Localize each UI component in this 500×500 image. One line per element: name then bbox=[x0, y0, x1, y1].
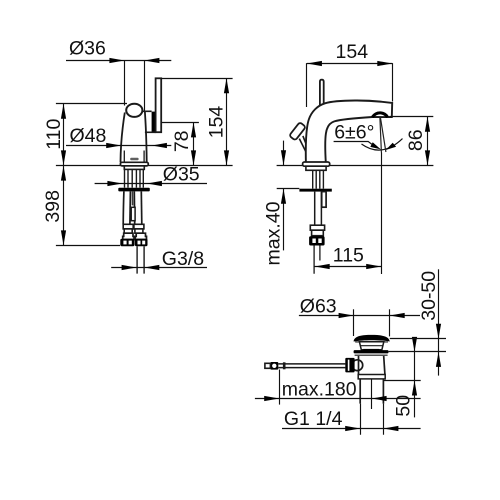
hose left crimp step B bbox=[124, 229, 132, 233]
svg-text:115: 115 bbox=[333, 245, 364, 267]
dim line Ø35 bbox=[95, 183, 207, 185]
rod collar bbox=[283, 362, 286, 369]
KEUCO logo tiny bbox=[130, 158, 138, 161]
arrow max.180 right bbox=[372, 396, 387, 401]
lever connector (black) bbox=[152, 112, 156, 132]
svg-text:398: 398 bbox=[42, 190, 64, 223]
crimp step B (right view) bbox=[312, 230, 324, 236]
dim line Ø63 bbox=[299, 315, 420, 317]
arrow Ø35 left bbox=[107, 181, 122, 186]
pop-up rod lines bbox=[132, 191, 134, 205]
arrow 154R left bbox=[307, 61, 322, 66]
svg-text:50: 50 bbox=[392, 395, 414, 417]
arrow G1 1/4 left bbox=[345, 426, 360, 431]
svg-text:6±6°: 6±6° bbox=[334, 122, 374, 144]
drain body left wall bbox=[358, 356, 360, 374]
right hose nut (black) bbox=[135, 239, 148, 246]
G3/8 pipe lines bbox=[137, 246, 144, 273]
arrow 86 down bbox=[425, 150, 430, 165]
spout body outline bbox=[306, 100, 392, 162]
arrow 398 down bbox=[61, 230, 66, 245]
arrow 115 left bbox=[315, 264, 330, 269]
counter line (right view) bbox=[277, 165, 434, 167]
crimp step A (right view) bbox=[310, 225, 324, 230]
rod tip bbox=[265, 363, 271, 368]
ball nut slit bbox=[348, 360, 350, 371]
arrow 154 down bbox=[224, 150, 229, 165]
escutcheon (left view) bbox=[120, 162, 148, 166]
stream line tilted bbox=[380, 117, 386, 152]
drain flange (black) bbox=[354, 350, 389, 353]
arrow Ø35 right bbox=[147, 181, 162, 186]
right nut window 1 bbox=[138, 241, 141, 245]
ext line 86 top bbox=[390, 116, 434, 118]
hose right crimp step B bbox=[135, 229, 143, 233]
right nut window 2 bbox=[142, 241, 145, 245]
pop-up rod housing bbox=[322, 192, 326, 208]
ext line 154 top (lever top) bbox=[161, 78, 232, 80]
dim line 86 bbox=[427, 117, 429, 166]
plug neck inner line bbox=[360, 345, 383, 347]
ext line 398 bottom bbox=[56, 245, 120, 247]
left nut collar bbox=[123, 233, 134, 239]
arrow 78 up bbox=[191, 122, 196, 137]
seal band (black) bbox=[363, 349, 379, 352]
svg-text:Ø63: Ø63 bbox=[300, 296, 337, 318]
arrow 50 up bbox=[412, 381, 417, 396]
mounting flange (right view, black) bbox=[299, 189, 331, 192]
ext line Ø63 left bbox=[353, 309, 355, 336]
plug cap (black lens) bbox=[354, 335, 390, 342]
extension line left x=124.4 bbox=[124, 61, 126, 106]
plug cap underline bbox=[355, 341, 388, 343]
ref line flange top bbox=[389, 351, 446, 353]
svg-text:G1 1/4: G1 1/4 bbox=[284, 408, 343, 430]
angle arc bbox=[362, 139, 403, 151]
lever mount bottom step bbox=[145, 131, 156, 133]
rod knob hole bbox=[272, 364, 276, 368]
hose left inner bbox=[129, 191, 132, 224]
svg-text:78: 78 bbox=[171, 130, 193, 152]
hose left crimp step A bbox=[123, 224, 133, 229]
dim line max.40 upper bbox=[283, 141, 285, 166]
ext line 78 top bbox=[161, 122, 199, 124]
dim line Ø36 bbox=[66, 60, 171, 62]
tailpipe walls bbox=[360, 379, 383, 404]
dim line Ø48 bbox=[66, 145, 171, 147]
lever pin bbox=[142, 110, 151, 112]
lever rod (right view) bbox=[320, 80, 324, 108]
side lever cap bbox=[289, 122, 306, 140]
svg-text:max.180: max.180 bbox=[282, 379, 357, 401]
cartridge knob ellipse bbox=[126, 104, 142, 117]
body outer right edge bbox=[145, 112, 147, 162]
dim line 110/398 vertical bbox=[63, 104, 65, 246]
ball nut (black) bbox=[345, 358, 354, 373]
arrow 110 down bbox=[61, 150, 66, 165]
dim line max.180 bbox=[255, 398, 421, 400]
pipe below nut + 115 ext bbox=[314, 246, 320, 274]
arrow 50 down bbox=[412, 337, 417, 352]
arrow Ø48 right bbox=[152, 143, 167, 148]
dim line 50 bbox=[414, 339, 416, 418]
tailpipe ext lines bbox=[361, 404, 384, 435]
arrow max.180 left bbox=[264, 396, 279, 401]
counter line (left view) bbox=[56, 165, 233, 167]
side lever stem bbox=[299, 136, 308, 152]
svg-text:30-50: 30-50 bbox=[418, 271, 440, 321]
dim line 78 bbox=[193, 122, 195, 165]
shank lines (right view) bbox=[313, 170, 324, 188]
lever bar bbox=[156, 78, 162, 132]
arrow 154 up bbox=[224, 78, 229, 93]
pop-up rod plate bbox=[131, 207, 135, 220]
nut (right view, black) bbox=[309, 236, 325, 245]
svg-text:Ø48: Ø48 bbox=[70, 125, 107, 147]
ext line rod tip bbox=[279, 370, 281, 405]
arrow G1 1/4 right bbox=[383, 426, 398, 431]
plug neck bbox=[359, 342, 383, 350]
tailpipe axis line bbox=[371, 379, 373, 409]
arrow G3/8 left bbox=[122, 265, 137, 270]
hose left outer bbox=[122, 191, 125, 224]
nut window 1 (right view) bbox=[312, 239, 315, 244]
arrow 110 up bbox=[61, 104, 66, 119]
drain flange lip bbox=[355, 354, 388, 356]
arrow 115 right bbox=[366, 264, 381, 269]
svg-text:86: 86 bbox=[405, 129, 427, 151]
ext line 154R left bbox=[306, 63, 308, 107]
arrow Ø63 left bbox=[339, 313, 354, 318]
escutcheon (right view) bbox=[303, 162, 330, 166]
hose right outer bbox=[140, 191, 143, 224]
nut window 2 (right view) bbox=[318, 239, 321, 244]
aerator band (black) bbox=[372, 113, 387, 117]
arrow Ø36 left bbox=[109, 58, 124, 63]
svg-text:Ø35: Ø35 bbox=[163, 164, 200, 186]
arrow 398 up bbox=[61, 166, 66, 181]
left nut window 2 bbox=[129, 241, 132, 245]
dim line 154 (left view) bbox=[226, 78, 228, 165]
dim line G3/8 bbox=[111, 267, 207, 269]
ext line 50 top bbox=[384, 380, 421, 382]
dim line 154 (right view) bbox=[307, 63, 392, 65]
drain body bottom rim bbox=[358, 375, 385, 379]
ball circle bbox=[352, 360, 363, 371]
dim line 30-50 bbox=[438, 269, 440, 375]
angle arrow right bbox=[386, 143, 396, 150]
hose right inner bbox=[133, 191, 135, 224]
arrow max.40 down-to-counter bbox=[281, 150, 286, 165]
rod lines bbox=[278, 364, 345, 368]
ext line 154R right bbox=[392, 63, 394, 101]
dim line 115 bbox=[314, 266, 381, 268]
arrow G3/8 right bbox=[144, 265, 159, 270]
body inner wall lines near base bbox=[124, 151, 144, 163]
rod knob (black) bbox=[270, 362, 278, 370]
arrow 30-50 up bbox=[436, 352, 441, 367]
drain body right wall bbox=[384, 356, 385, 374]
arrow max.40 up-to-flange bbox=[281, 189, 286, 204]
body outer left edge bbox=[121, 113, 125, 163]
base collar (right view) bbox=[306, 166, 326, 170]
arrow Ø63 right bbox=[390, 313, 405, 318]
mounting flange nut (black) bbox=[118, 188, 150, 192]
left hose nut (black) bbox=[120, 239, 134, 246]
hose right crimp step A bbox=[134, 224, 144, 229]
shank lines bbox=[125, 169, 144, 187]
arrow 30-50 down bbox=[436, 324, 441, 339]
angle arrow left bbox=[370, 142, 381, 149]
svg-text:154: 154 bbox=[205, 106, 227, 139]
stream ext line down to 115 bbox=[381, 153, 383, 275]
svg-text:G3/8: G3/8 bbox=[162, 248, 204, 270]
arrow 154R right bbox=[377, 61, 392, 66]
left nut window 1 bbox=[123, 241, 126, 245]
ref line plug top bbox=[390, 338, 446, 340]
svg-text:Ø36: Ø36 bbox=[69, 38, 106, 60]
arrow Ø36 right bbox=[144, 58, 159, 63]
arrow Ø48 left bbox=[106, 143, 121, 148]
underline 6±6° bbox=[334, 142, 376, 148]
dim line max.40 lower bbox=[283, 189, 285, 251]
svg-text:154: 154 bbox=[336, 41, 369, 63]
supply shank below flange bbox=[315, 192, 322, 226]
stream line vertical bbox=[380, 117, 382, 152]
base collar (left view) bbox=[124, 166, 144, 170]
svg-text:110: 110 bbox=[43, 119, 65, 150]
dim line G1 1/4 bbox=[282, 428, 421, 430]
arrow 86 up bbox=[425, 117, 430, 132]
ext line flange top left bbox=[277, 188, 300, 190]
arrow 78 down bbox=[191, 150, 196, 165]
svg-text:max.40: max.40 bbox=[262, 201, 284, 265]
ext line Ø63 right bbox=[389, 309, 391, 336]
right nut collar bbox=[135, 233, 146, 239]
ext line top of knob bbox=[56, 103, 127, 105]
extension line right x=144.4 bbox=[144, 61, 146, 112]
